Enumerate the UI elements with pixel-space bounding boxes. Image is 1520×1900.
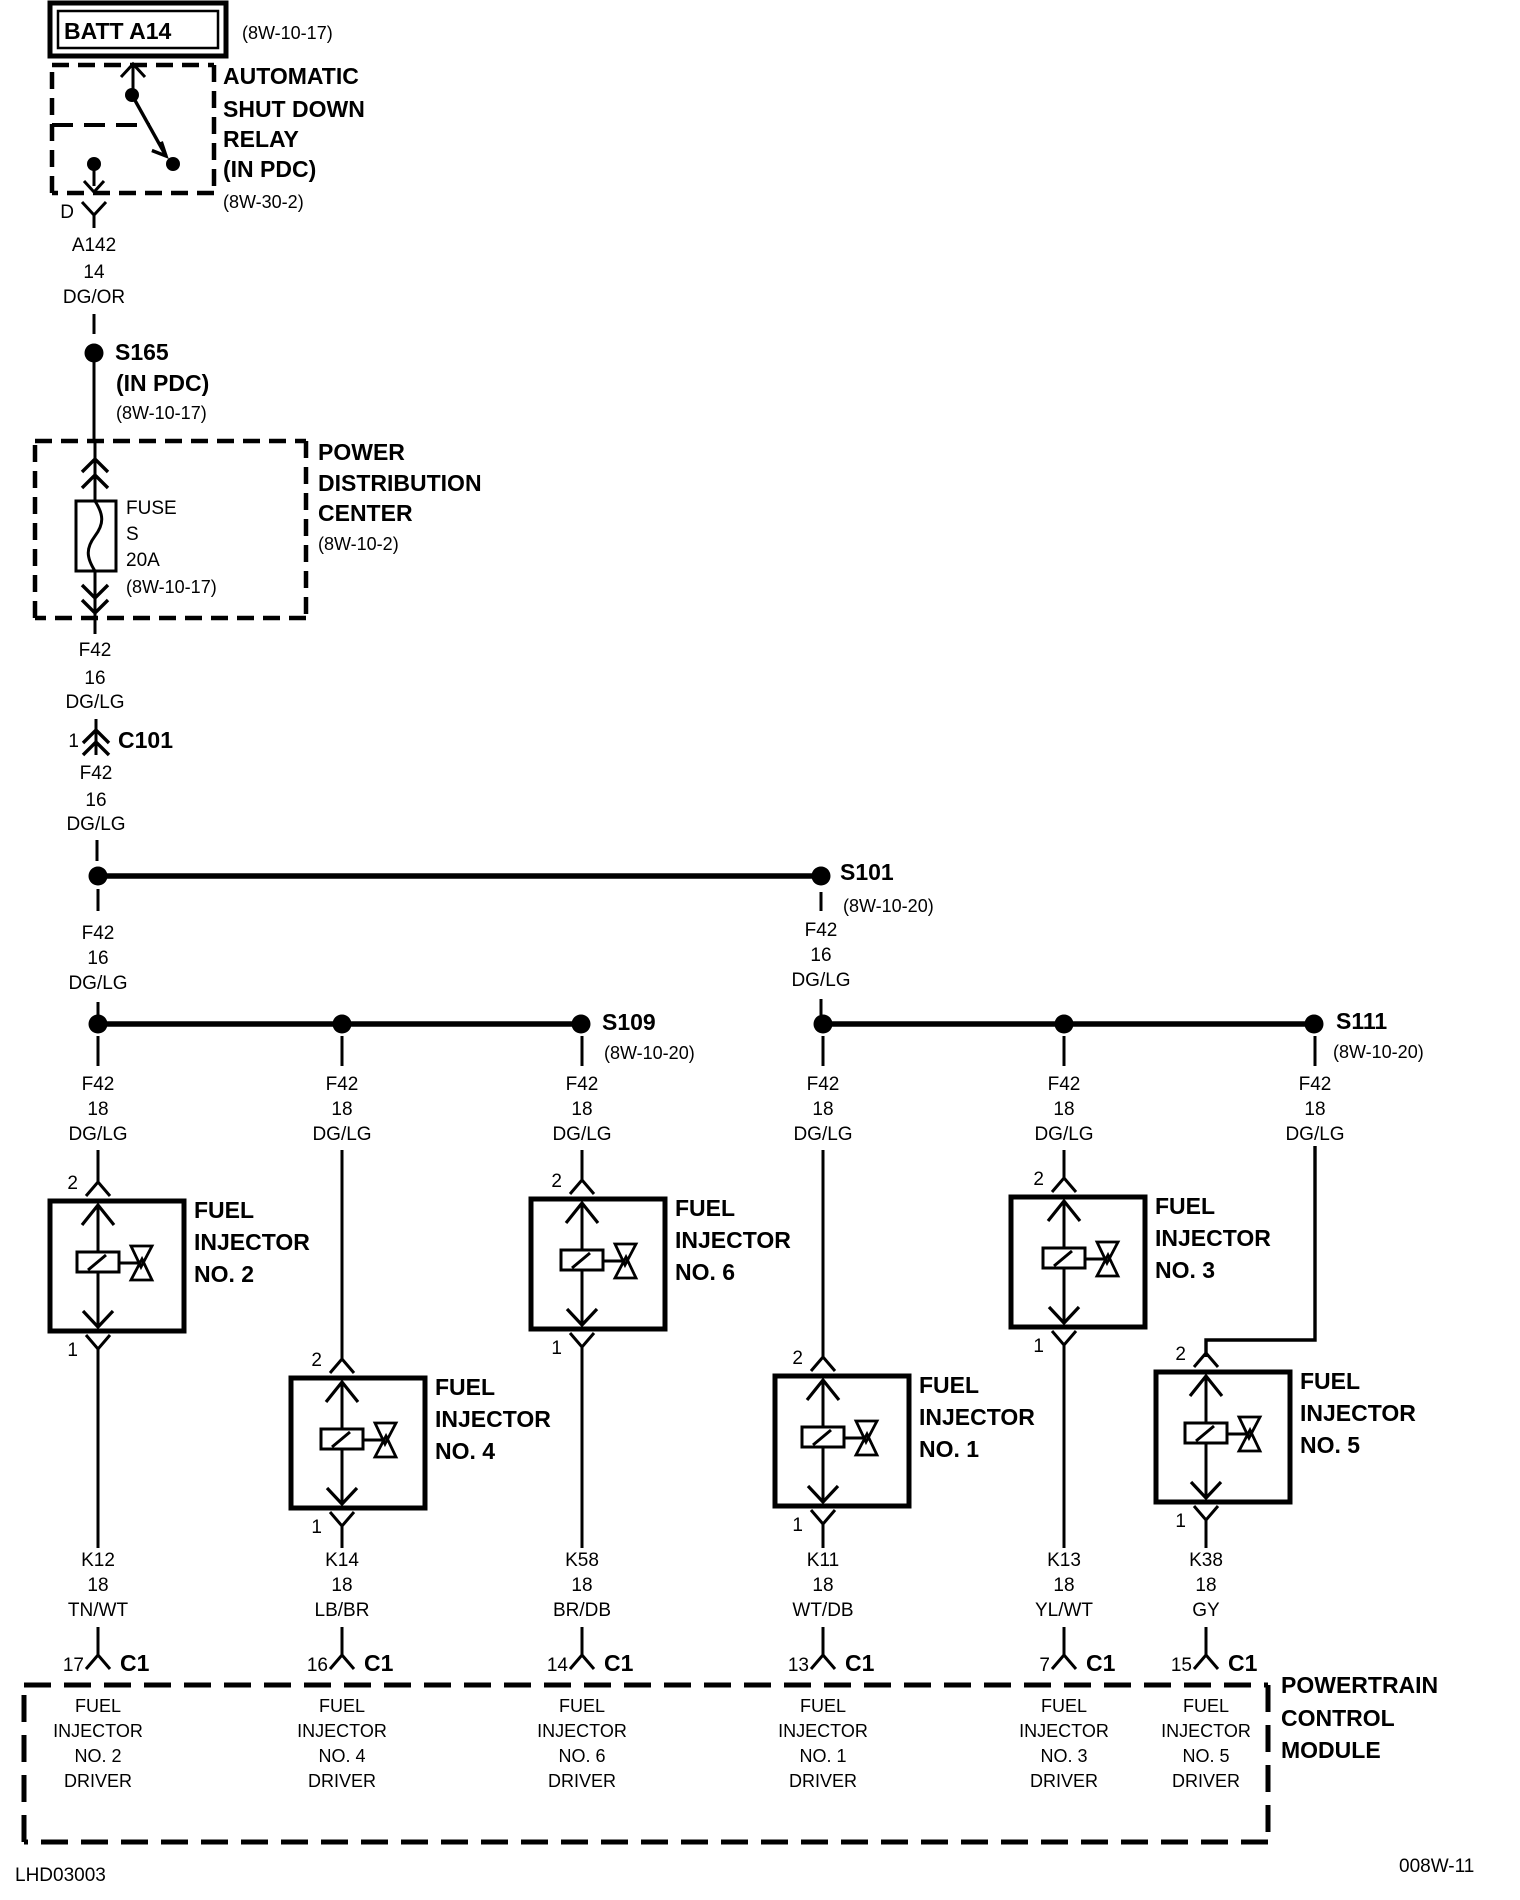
svg-text:DG/LG: DG/LG: [1285, 1124, 1344, 1145]
svg-text:F42: F42: [80, 763, 113, 784]
battery feed box BATT A14: [50, 3, 226, 56]
svg-text:FUEL: FUEL: [1183, 1696, 1229, 1716]
svg-text:FUEL: FUEL: [1300, 1368, 1360, 1394]
svg-text:1: 1: [551, 1338, 562, 1359]
fuse S 20A: [76, 501, 116, 571]
svg-text:DG/OR: DG/OR: [63, 287, 125, 308]
svg-text:2: 2: [311, 1350, 322, 1371]
svg-text:(8W-10-20): (8W-10-20): [843, 896, 934, 916]
wire segment below S101: [820, 892, 823, 911]
svg-text:NO. 1: NO. 1: [799, 1746, 846, 1766]
svg-text:(8W-10-17): (8W-10-17): [242, 23, 333, 43]
svg-text:INJECTOR: INJECTOR: [1155, 1225, 1271, 1251]
svg-text:FUEL: FUEL: [435, 1374, 495, 1400]
right bus junction dot (injector 3 tap): [1055, 1015, 1074, 1034]
svg-text:FUEL: FUEL: [800, 1696, 846, 1716]
svg-text:WT/DB: WT/DB: [792, 1600, 853, 1621]
svg-text:F42: F42: [566, 1074, 599, 1095]
svg-text:INJECTOR: INJECTOR: [778, 1721, 868, 1741]
svg-text:DRIVER: DRIVER: [1030, 1771, 1098, 1791]
wire segment below branch dot: [97, 889, 100, 911]
svg-text:INJECTOR: INJECTOR: [919, 1404, 1035, 1430]
svg-text:AUTOMATIC: AUTOMATIC: [223, 63, 359, 89]
svg-text:NO. 1: NO. 1: [919, 1436, 979, 1462]
svg-text:INJECTOR: INJECTOR: [1161, 1721, 1251, 1741]
fuel injector NO. 6 box: [531, 1199, 665, 1329]
svg-text:18: 18: [331, 1099, 352, 1120]
wire segment bus to F42 label (injector 6 feed): [581, 1036, 584, 1066]
injector 1 pin 1 connector symbol: [811, 1510, 835, 1524]
wire segment injector 6 to PCM (K58): [581, 1359, 584, 1548]
fuel injector NO. 2 outlet arrow: [97, 1272, 100, 1327]
injector 4 pin 2 connector symbol: [330, 1359, 354, 1373]
svg-text:F42: F42: [1048, 1074, 1081, 1095]
injector 3 pin 2 connector symbol: [1052, 1178, 1076, 1192]
wire segment S165 to PDC: [93, 362, 96, 442]
wire segment to injector 1 pin 2: [822, 1150, 825, 1357]
wire segment injector 5 to PCM (K38): [1205, 1532, 1208, 1548]
svg-text:YL/WT: YL/WT: [1035, 1600, 1093, 1621]
splice S165 dot: [85, 344, 104, 363]
PDC entry double chevron: [82, 459, 108, 472]
injector 5 pin 2 connector symbol: [1205, 1340, 1208, 1353]
fuel injector NO. 1 box: [775, 1376, 909, 1506]
wire segment PDC to F42 label: [94, 618, 97, 634]
svg-text:TN/WT: TN/WT: [68, 1600, 129, 1621]
svg-text:(IN PDC): (IN PDC): [223, 156, 316, 182]
svg-text:NO. 3: NO. 3: [1155, 1257, 1215, 1283]
svg-text:F42: F42: [82, 923, 115, 944]
svg-text:7: 7: [1039, 1655, 1050, 1676]
injector 4 pin 1 connector symbol: [330, 1512, 354, 1526]
wire segment to injector 6 pin 2: [581, 1150, 584, 1180]
svg-text:(8W-10-20): (8W-10-20): [604, 1043, 695, 1063]
svg-text:INJECTOR: INJECTOR: [194, 1229, 310, 1255]
fuel injector NO. 6 nozzle valve symbol: [615, 1244, 636, 1265]
svg-text:DRIVER: DRIVER: [64, 1771, 132, 1791]
svg-text:DG/LG: DG/LG: [793, 1124, 852, 1145]
svg-text:F42: F42: [82, 1074, 115, 1095]
fuel injector NO. 1 solenoid coil: [802, 1427, 844, 1447]
wire segment bus to F42 label (injector 1 feed): [822, 1036, 825, 1066]
svg-text:F42: F42: [326, 1074, 359, 1095]
svg-text:S101: S101: [840, 859, 894, 885]
svg-text:DG/LG: DG/LG: [66, 814, 125, 835]
svg-text:S165: S165: [115, 339, 169, 365]
splice S101 dot: [812, 867, 831, 886]
svg-text:F42: F42: [805, 920, 838, 941]
fuel injector NO. 3 inlet arrow: [1048, 1201, 1080, 1221]
svg-text:DISTRIBUTION: DISTRIBUTION: [318, 470, 482, 496]
svg-text:16: 16: [84, 668, 105, 689]
svg-text:18: 18: [1304, 1099, 1325, 1120]
svg-text:NO. 5: NO. 5: [1300, 1432, 1360, 1458]
svg-text:18: 18: [87, 1575, 108, 1596]
svg-text:15: 15: [1171, 1655, 1192, 1676]
svg-text:DG/LG: DG/LG: [312, 1124, 371, 1145]
svg-text:POWERTRAIN: POWERTRAIN: [1281, 1672, 1438, 1698]
wire segment bus to F42 label (injector 3 feed): [1063, 1036, 1066, 1066]
connector pin D symbol: [82, 202, 106, 215]
fuel injector NO. 6 inlet arrow: [566, 1203, 598, 1223]
svg-text:INJECTOR: INJECTOR: [297, 1721, 387, 1741]
wire segment to left bus: [97, 1002, 100, 1015]
svg-text:A142: A142: [72, 235, 116, 256]
PCM connector C1 symbol (pin 17): [97, 1627, 100, 1655]
fuel injector NO. 4 solenoid coil: [321, 1429, 363, 1449]
svg-text:K14: K14: [325, 1550, 359, 1571]
svg-text:14: 14: [83, 262, 105, 283]
svg-text:DG/LG: DG/LG: [552, 1124, 611, 1145]
svg-text:18: 18: [331, 1575, 352, 1596]
svg-text:K12: K12: [81, 1550, 115, 1571]
svg-text:1: 1: [67, 1340, 78, 1361]
automatic shut down relay dashed box (in PDC): [52, 63, 214, 68]
powertrain control module dashed box: [24, 1683, 1268, 1688]
right bus wire: [823, 1021, 1314, 1027]
wire segment pin D to S165: [93, 314, 96, 334]
svg-text:INJECTOR: INJECTOR: [53, 1721, 143, 1741]
connector C101 symbol: [95, 719, 98, 755]
svg-text:CENTER: CENTER: [318, 500, 413, 526]
injector 1 pin 2 connector symbol: [811, 1357, 835, 1371]
svg-text:DG/LG: DG/LG: [68, 1124, 127, 1145]
fuel injector NO. 1 inlet arrow: [807, 1380, 839, 1400]
svg-text:18: 18: [1053, 1099, 1074, 1120]
wire segment S111 down and jog left to injector 5: [1206, 1146, 1315, 1357]
svg-text:D: D: [60, 202, 74, 223]
relay armature pivot dot: [125, 88, 139, 102]
svg-text:K38: K38: [1189, 1550, 1223, 1571]
PCM connector C1 symbol (pin 16): [341, 1627, 344, 1655]
splice S109 dot: [572, 1015, 591, 1034]
PCM connector C1 symbol (pin 13): [822, 1627, 825, 1655]
fuel injector NO. 2 inlet arrow: [82, 1205, 114, 1225]
svg-text:F42: F42: [807, 1074, 840, 1095]
svg-text:2: 2: [67, 1173, 78, 1194]
injector 3 pin 1 connector symbol: [1052, 1331, 1076, 1345]
wire segment to injector 4 pin 2: [341, 1150, 344, 1359]
PCM connector C1 symbol (pin 7): [1063, 1627, 1066, 1655]
wire segment C101 to bus junction: [96, 840, 99, 861]
svg-text:2: 2: [1175, 1344, 1186, 1365]
wire segment injector 1 to PCM (K11): [822, 1536, 825, 1548]
svg-text:FUEL: FUEL: [1155, 1193, 1215, 1219]
fuel injector NO. 6 outlet arrow: [581, 1270, 584, 1325]
svg-text:18: 18: [571, 1575, 592, 1596]
svg-text:1: 1: [1175, 1511, 1186, 1532]
svg-text:14: 14: [547, 1655, 569, 1676]
svg-text:FUEL: FUEL: [675, 1195, 735, 1221]
svg-text:K13: K13: [1047, 1550, 1081, 1571]
svg-text:NO. 6: NO. 6: [558, 1746, 605, 1766]
svg-text:1: 1: [1033, 1336, 1044, 1357]
svg-text:C1: C1: [845, 1650, 875, 1676]
svg-text:20A: 20A: [126, 550, 160, 571]
wire segment to injector 3 pin 2: [1063, 1150, 1066, 1178]
svg-text:NO. 6: NO. 6: [675, 1259, 735, 1285]
fuel injector NO. 1 outlet arrow: [822, 1447, 825, 1502]
bus wire to splice S101: [98, 873, 821, 879]
svg-text:18: 18: [571, 1099, 592, 1120]
wire segment bus to F42 label (injector 2 feed): [97, 1036, 100, 1066]
fuel injector NO. 3 outlet arrow: [1063, 1268, 1066, 1323]
svg-text:(8W-30-2): (8W-30-2): [223, 192, 304, 212]
svg-text:(8W-10-17): (8W-10-17): [116, 403, 207, 423]
svg-text:CONTROL: CONTROL: [1281, 1705, 1395, 1731]
svg-text:C1: C1: [1228, 1650, 1258, 1676]
left bus junction dot (injector 2 tap): [89, 1015, 108, 1034]
svg-text:DG/LG: DG/LG: [68, 973, 127, 994]
svg-text:C1: C1: [364, 1650, 394, 1676]
svg-text:LHD03003: LHD03003: [15, 1865, 106, 1886]
svg-text:C1: C1: [120, 1650, 150, 1676]
svg-text:13: 13: [788, 1655, 809, 1676]
svg-text:18: 18: [1195, 1575, 1216, 1596]
svg-text:1: 1: [311, 1517, 322, 1538]
svg-text:18: 18: [812, 1575, 833, 1596]
svg-text:INJECTOR: INJECTOR: [1019, 1721, 1109, 1741]
fuel injector NO. 4 outlet arrow: [341, 1449, 344, 1504]
relay output terminal dot: [87, 157, 101, 171]
fuel injector NO. 2 solenoid coil: [77, 1252, 119, 1272]
svg-text:008W-11: 008W-11: [1399, 1856, 1474, 1877]
wire segment injector 4 to PCM (K14): [341, 1538, 344, 1548]
right bus junction dot (injector 1 tap): [814, 1015, 833, 1034]
svg-text:FUEL: FUEL: [75, 1696, 121, 1716]
wire segment to injector 2 pin 2: [97, 1150, 100, 1182]
svg-text:NO. 2: NO. 2: [194, 1261, 254, 1287]
relay output terminal arrow to pin D: [93, 164, 96, 186]
svg-text:DRIVER: DRIVER: [789, 1771, 857, 1791]
svg-text:DG/LG: DG/LG: [65, 692, 124, 713]
svg-text:16: 16: [85, 790, 106, 811]
svg-text:18: 18: [87, 1099, 108, 1120]
PDC exit wire: [94, 571, 97, 618]
PCM connector C1 symbol (pin 14): [581, 1627, 584, 1655]
PDC entry wire: [94, 441, 97, 501]
svg-text:(8W-10-2): (8W-10-2): [318, 534, 399, 554]
svg-text:2: 2: [1033, 1169, 1044, 1190]
left bus wire: [98, 1021, 581, 1027]
left bus junction dot (injector 4 tap): [333, 1015, 352, 1034]
fuel injector NO. 2 nozzle valve symbol: [131, 1246, 152, 1267]
PDC exit double chevron: [82, 585, 108, 598]
svg-text:INJECTOR: INJECTOR: [435, 1406, 551, 1432]
wire segment injector 3 to PCM (K13): [1063, 1357, 1066, 1548]
relay terminal arrow to BATT A14: [121, 64, 145, 77]
svg-text:NO. 2: NO. 2: [74, 1746, 121, 1766]
svg-text:GY: GY: [1192, 1600, 1220, 1621]
svg-text:C1: C1: [604, 1650, 634, 1676]
wire segment bus to F42 label (injector 4 feed): [341, 1036, 344, 1066]
svg-text:FUEL: FUEL: [319, 1696, 365, 1716]
svg-text:FUSE: FUSE: [126, 498, 177, 519]
wire segment bus to F42 label (injector 5 feed): [1314, 1036, 1317, 1066]
injector 2 pin 2 connector symbol: [86, 1182, 110, 1196]
svg-text:RELAY: RELAY: [223, 126, 299, 152]
injector 2 pin 1 connector symbol: [86, 1335, 110, 1349]
svg-text:16: 16: [87, 948, 108, 969]
svg-text:LB/BR: LB/BR: [315, 1600, 370, 1621]
svg-text:FUEL: FUEL: [194, 1197, 254, 1223]
svg-text:F42: F42: [79, 640, 112, 661]
fuel injector NO. 5 nozzle valve symbol: [1239, 1417, 1260, 1438]
fuel injector NO. 3 solenoid coil: [1043, 1248, 1085, 1268]
relay contact dot (normally-open): [166, 157, 180, 171]
svg-text:NO. 4: NO. 4: [318, 1746, 365, 1766]
svg-text:16: 16: [307, 1655, 328, 1676]
svg-text:BATT A14: BATT A14: [64, 18, 172, 44]
svg-text:K11: K11: [807, 1550, 839, 1571]
svg-text:S109: S109: [602, 1009, 656, 1035]
svg-text:(8W-10-17): (8W-10-17): [126, 577, 217, 597]
fuel injector NO. 1 nozzle valve symbol: [856, 1421, 877, 1442]
svg-text:DRIVER: DRIVER: [308, 1771, 376, 1791]
svg-text:POWER: POWER: [318, 439, 405, 465]
fuel injector NO. 4 box: [291, 1378, 425, 1508]
injector 6 pin 1 connector symbol: [570, 1333, 594, 1347]
svg-text:18: 18: [1053, 1575, 1074, 1596]
fuel injector NO. 5 box: [1156, 1372, 1290, 1502]
wire segment to right bus: [820, 999, 823, 1015]
svg-text:FUEL: FUEL: [919, 1372, 979, 1398]
svg-text:NO. 5: NO. 5: [1182, 1746, 1229, 1766]
svg-text:NO. 4: NO. 4: [435, 1438, 495, 1464]
fuel injector NO. 6 solenoid coil: [561, 1250, 603, 1270]
svg-text:INJECTOR: INJECTOR: [1300, 1400, 1416, 1426]
fuel injector NO. 3 box: [1011, 1197, 1145, 1327]
svg-text:FUEL: FUEL: [1041, 1696, 1087, 1716]
svg-text:S: S: [126, 524, 139, 545]
svg-text:2: 2: [792, 1348, 803, 1369]
junction dot at F42 branch: [89, 867, 108, 886]
svg-text:DRIVER: DRIVER: [1172, 1771, 1240, 1791]
svg-text:DG/LG: DG/LG: [791, 970, 850, 991]
svg-text:DG/LG: DG/LG: [1034, 1124, 1093, 1145]
wire segment injector 2 to PCM (K12): [97, 1361, 100, 1548]
svg-text:INJECTOR: INJECTOR: [675, 1227, 791, 1253]
fuel injector NO. 4 nozzle valve symbol: [375, 1423, 396, 1444]
PCM connector C1 symbol (pin 15): [1205, 1627, 1208, 1655]
injector 5 pin 1 connector symbol: [1194, 1506, 1218, 1520]
svg-text:DRIVER: DRIVER: [548, 1771, 616, 1791]
svg-text:17: 17: [63, 1655, 84, 1676]
svg-text:NO. 3: NO. 3: [1040, 1746, 1087, 1766]
svg-text:1: 1: [68, 731, 79, 752]
splice S111 dot: [1305, 1015, 1324, 1034]
svg-text:SHUT DOWN: SHUT DOWN: [223, 96, 365, 122]
svg-text:BR/DB: BR/DB: [553, 1600, 611, 1621]
svg-text:MODULE: MODULE: [1281, 1737, 1381, 1763]
svg-text:(8W-10-20): (8W-10-20): [1333, 1042, 1424, 1062]
svg-text:C1: C1: [1086, 1650, 1116, 1676]
fuel injector NO. 4 inlet arrow: [326, 1382, 358, 1402]
fuel injector NO. 5 outlet arrow: [1205, 1443, 1208, 1498]
svg-text:2: 2: [551, 1171, 562, 1192]
svg-text:18: 18: [812, 1099, 833, 1120]
fuel injector NO. 2 box: [50, 1201, 184, 1331]
svg-text:F42: F42: [1299, 1074, 1332, 1095]
svg-text:S111: S111: [1336, 1008, 1387, 1034]
fuel injector NO. 5 solenoid coil: [1185, 1423, 1227, 1443]
svg-text:(IN PDC): (IN PDC): [116, 370, 209, 396]
fuel injector NO. 5 inlet arrow: [1190, 1376, 1222, 1396]
fuel injector NO. 3 nozzle valve symbol: [1097, 1242, 1118, 1263]
svg-text:INJECTOR: INJECTOR: [537, 1721, 627, 1741]
svg-text:K58: K58: [565, 1550, 599, 1571]
svg-text:FUEL: FUEL: [559, 1696, 605, 1716]
svg-text:1: 1: [792, 1515, 803, 1536]
relay armature switch blade with arrowhead: [132, 95, 166, 156]
injector 6 pin 2 connector symbol: [570, 1180, 594, 1194]
svg-text:C101: C101: [118, 727, 173, 753]
svg-text:16: 16: [810, 945, 831, 966]
power distribution center dashed box: [35, 439, 306, 444]
